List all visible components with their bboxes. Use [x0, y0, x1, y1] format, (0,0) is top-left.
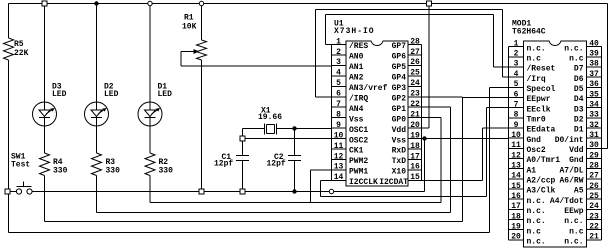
svg-text:Vdd: Vdd	[569, 146, 584, 155]
svg-text:26: 26	[589, 182, 599, 191]
svg-text:23: 23	[589, 212, 599, 221]
svg-text:PWM2: PWM2	[349, 157, 368, 166]
svg-text:23: 23	[410, 90, 420, 99]
svg-text:A2/ccp: A2/ccp	[527, 177, 556, 186]
svg-text:GP5: GP5	[392, 63, 407, 72]
svg-text:Vss: Vss	[349, 115, 364, 124]
svg-text:7: 7	[336, 100, 341, 109]
svg-text:19: 19	[410, 131, 420, 140]
svg-text:EEdata: EEdata	[527, 126, 556, 135]
svg-text:21: 21	[410, 110, 420, 119]
svg-text:A7/DL: A7/DL	[559, 166, 583, 175]
svg-text:7: 7	[514, 100, 519, 109]
svg-text:25: 25	[410, 69, 420, 78]
svg-text:AN0: AN0	[349, 53, 364, 62]
svg-text:n.c.: n.c.	[527, 44, 546, 53]
svg-text:5: 5	[336, 79, 341, 88]
svg-text:11: 11	[334, 142, 344, 151]
svg-text:Specol: Specol	[527, 85, 556, 94]
svg-text:22: 22	[589, 222, 599, 231]
svg-text:n.c.: n.c.	[527, 238, 546, 247]
svg-text:/Reset: /Reset	[527, 65, 556, 74]
svg-text:n.c: n.c	[569, 54, 584, 63]
svg-text:28: 28	[410, 37, 420, 46]
svg-text:10: 10	[511, 131, 521, 140]
svg-text:EEpwr: EEpwr	[527, 95, 551, 104]
svg-text:AN2: AN2	[349, 74, 364, 83]
svg-text:n.c.: n.c.	[564, 238, 583, 247]
svg-text:GP6: GP6	[392, 53, 407, 62]
svg-text:R5: R5	[14, 40, 24, 49]
svg-text:n.c.: n.c.	[527, 207, 546, 216]
svg-text:15: 15	[410, 173, 420, 182]
svg-text:330: 330	[159, 167, 174, 176]
svg-text:22: 22	[410, 100, 420, 109]
svg-text:OSC1: OSC1	[349, 126, 368, 135]
svg-text:A3/Clk: A3/Clk	[527, 187, 556, 196]
svg-text:CK1: CK1	[349, 147, 364, 156]
svg-text:Vss: Vss	[392, 136, 407, 145]
svg-text:18: 18	[511, 212, 521, 221]
svg-text:27: 27	[410, 48, 420, 57]
svg-text:1: 1	[336, 37, 341, 46]
svg-text:X73H-IO: X73H-IO	[334, 27, 375, 36]
svg-text:n.c: n.c	[527, 227, 542, 236]
svg-text:37: 37	[589, 70, 599, 79]
svg-text:n.c.: n.c.	[527, 197, 546, 206]
svg-text:10K: 10K	[182, 23, 197, 32]
svg-text:3: 3	[514, 60, 519, 69]
svg-text:27: 27	[589, 172, 599, 181]
svg-text:GP4: GP4	[392, 74, 407, 83]
svg-text:22K: 22K	[14, 49, 29, 58]
svg-text:2: 2	[336, 48, 341, 57]
svg-text:GP3: GP3	[392, 84, 407, 93]
svg-text:38: 38	[589, 60, 599, 69]
svg-text:A4/Tdot: A4/Tdot	[550, 197, 584, 206]
svg-text:12pf: 12pf	[267, 160, 286, 169]
svg-text:D2: D2	[574, 115, 584, 124]
svg-text:16: 16	[410, 163, 420, 172]
svg-text:17: 17	[511, 202, 521, 211]
svg-text:9: 9	[336, 121, 341, 130]
svg-text:GP7: GP7	[392, 42, 407, 51]
svg-text:Osc2: Osc2	[527, 146, 546, 155]
svg-text:D7: D7	[574, 65, 584, 74]
svg-text:35: 35	[589, 90, 599, 99]
svg-text:6: 6	[514, 90, 519, 99]
svg-text:12: 12	[334, 152, 344, 161]
svg-text:30: 30	[589, 141, 599, 150]
svg-text:26: 26	[410, 58, 420, 67]
svg-text:X10: X10	[392, 168, 407, 177]
svg-text:34: 34	[589, 100, 599, 109]
svg-text:15: 15	[511, 182, 521, 191]
svg-text:I2CCLK: I2CCLK	[349, 178, 378, 187]
svg-text:4: 4	[336, 69, 341, 78]
svg-text:4: 4	[514, 70, 519, 79]
svg-text:11: 11	[511, 141, 521, 150]
svg-text:OSC2: OSC2	[349, 136, 368, 145]
svg-text:D1: D1	[574, 126, 584, 135]
svg-text:14: 14	[511, 172, 521, 181]
svg-text:TxD: TxD	[392, 157, 407, 166]
svg-text:10: 10	[334, 131, 344, 140]
svg-text:AN3/vref: AN3/vref	[349, 84, 388, 93]
svg-text:I2CDAT: I2CDAT	[379, 178, 408, 187]
svg-text:24: 24	[410, 79, 420, 88]
svg-text:32: 32	[589, 121, 599, 130]
svg-text:2: 2	[514, 50, 519, 59]
svg-text:LED: LED	[158, 90, 173, 99]
svg-text:AN4: AN4	[349, 105, 364, 114]
svg-text:31: 31	[589, 131, 599, 140]
svg-text:8: 8	[336, 110, 341, 119]
svg-text:/IRQ: /IRQ	[349, 94, 368, 103]
svg-text:GP1: GP1	[392, 105, 407, 114]
svg-text:6: 6	[336, 90, 341, 99]
svg-text:13: 13	[511, 161, 521, 170]
svg-text:A0/Tmr1: A0/Tmr1	[527, 156, 561, 165]
svg-text:/RES: /RES	[349, 42, 368, 51]
svg-text:1: 1	[514, 39, 519, 48]
svg-text:20: 20	[410, 121, 420, 130]
svg-text:EEwp: EEwp	[564, 207, 583, 216]
svg-text:RxD: RxD	[392, 147, 407, 156]
svg-text:PWM1: PWM1	[349, 168, 368, 177]
svg-text:n.c.: n.c.	[527, 217, 546, 226]
svg-text:LED: LED	[52, 90, 67, 99]
svg-text:GP0: GP0	[392, 115, 407, 124]
svg-text:GP2: GP2	[392, 94, 407, 103]
svg-text:28: 28	[589, 161, 599, 170]
svg-text:D6: D6	[574, 75, 584, 84]
svg-text:330: 330	[106, 167, 121, 176]
svg-text:D3: D3	[574, 105, 584, 114]
svg-text:21: 21	[589, 233, 599, 242]
svg-text:EEclk: EEclk	[527, 105, 551, 114]
svg-text:D4: D4	[574, 95, 584, 104]
svg-text:36: 36	[589, 80, 599, 89]
svg-text:40: 40	[589, 39, 599, 48]
svg-text:29: 29	[589, 151, 599, 160]
svg-text:Tmr0: Tmr0	[527, 115, 546, 124]
svg-text:AN1: AN1	[349, 63, 364, 72]
svg-text:8: 8	[514, 111, 519, 120]
svg-text:3: 3	[336, 58, 341, 67]
svg-text:16: 16	[511, 192, 521, 201]
svg-text:14: 14	[334, 173, 344, 182]
svg-text:33: 33	[589, 111, 599, 120]
svg-text:A1: A1	[527, 166, 537, 175]
svg-text:24: 24	[589, 202, 599, 211]
svg-text:39: 39	[589, 50, 599, 59]
svg-text:Gnd: Gnd	[569, 156, 584, 165]
svg-text:19.66: 19.66	[258, 113, 282, 122]
svg-text:n.c.: n.c.	[564, 44, 583, 53]
svg-text:5: 5	[514, 80, 519, 89]
svg-text:12pf: 12pf	[214, 160, 233, 169]
svg-text:25: 25	[589, 192, 599, 201]
svg-text:13: 13	[334, 163, 344, 172]
svg-text:17: 17	[410, 152, 420, 161]
svg-text:A6/RW: A6/RW	[559, 177, 583, 186]
svg-text:9: 9	[514, 121, 519, 130]
svg-text:Gnd: Gnd	[527, 136, 542, 145]
svg-text:20: 20	[511, 233, 521, 242]
svg-text:n.c: n.c	[527, 54, 542, 63]
svg-text:12: 12	[511, 151, 521, 160]
svg-text:LED: LED	[104, 90, 119, 99]
svg-text:18: 18	[410, 142, 420, 151]
svg-text:19: 19	[511, 222, 521, 231]
svg-text:R1: R1	[184, 14, 194, 23]
svg-text:n.c.: n.c.	[564, 217, 583, 226]
svg-text:T62H64C: T62H64C	[512, 28, 546, 37]
svg-text:D0/int: D0/int	[555, 136, 584, 145]
svg-text:D5: D5	[574, 85, 584, 94]
svg-text:330: 330	[53, 167, 68, 176]
svg-text:/Irq: /Irq	[527, 75, 546, 84]
svg-text:Test: Test	[11, 161, 30, 170]
svg-text:A5: A5	[574, 187, 584, 196]
svg-text:n.c: n.c	[569, 227, 584, 236]
svg-text:Vdd: Vdd	[392, 126, 407, 135]
